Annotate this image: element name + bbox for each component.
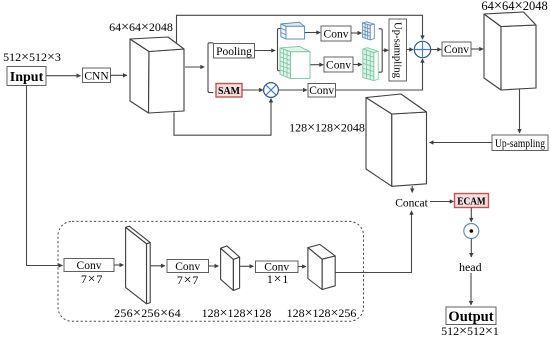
wire cuboid1-mult bottom bbox=[174, 99, 271, 136]
bracket2 bbox=[278, 29, 282, 71]
wire Input-dashedbox bbox=[27, 86, 63, 266]
box Conv sam row bbox=[308, 84, 336, 98]
dot operator bbox=[464, 224, 479, 239]
svg-text:SAM: SAM bbox=[218, 86, 240, 97]
box Conv mid bbox=[324, 57, 353, 72]
wire upsampling-adder bbox=[407, 49, 414, 51]
wire ECAM-dot bbox=[470, 208, 472, 222]
box Conv1 bbox=[64, 259, 114, 272]
svg-text:Input: Input bbox=[10, 70, 44, 85]
svg-text:Conv: Conv bbox=[326, 60, 351, 72]
adder bbox=[414, 41, 430, 57]
wire cuboid1-bracket1 bbox=[185, 66, 204, 68]
svg-text:Conv: Conv bbox=[324, 29, 349, 41]
wire Input-CNN bbox=[46, 75, 81, 77]
blue feature box bbox=[281, 22, 305, 39]
wire cuboid2-upsampling2 bbox=[519, 89, 521, 133]
box ECAM bbox=[455, 194, 489, 208]
box Conv2 bbox=[167, 260, 209, 273]
box Conv right bbox=[442, 42, 471, 56]
svg-text:7×7: 7×7 bbox=[81, 272, 103, 287]
wire SAM-mult bbox=[242, 89, 263, 91]
box SAM bbox=[216, 84, 242, 98]
wire head-Output bbox=[470, 273, 472, 305]
svg-text:Up-sampling: Up-sampling bbox=[495, 136, 545, 150]
wire conv2-slab2 bbox=[209, 265, 219, 267]
wire upsampling2-cuboid3 bbox=[430, 142, 493, 144]
wire blue-Conv bbox=[305, 32, 321, 34]
bracket1 bbox=[208, 43, 213, 93]
svg-text:Output: Output bbox=[448, 309, 493, 325]
svg-text:128×128×2048: 128×128×2048 bbox=[289, 121, 365, 136]
wire Conv-greengrid bbox=[353, 64, 362, 66]
wire adder-Conv bbox=[431, 49, 442, 51]
box Input bbox=[7, 67, 46, 86]
box Output bbox=[446, 307, 496, 325]
wire CNN-cuboid1 bbox=[111, 74, 128, 76]
wire Conv-adder bottom bbox=[336, 59, 423, 90]
wire green-Conv bbox=[310, 64, 323, 66]
wire conv1-slab1 bbox=[114, 264, 124, 266]
wire bracket3-upsampling bbox=[382, 49, 388, 51]
box Conv3 bbox=[256, 261, 299, 273]
svg-text:Concat: Concat bbox=[395, 197, 428, 209]
svg-text:head: head bbox=[459, 260, 482, 274]
box Conv top bbox=[321, 26, 351, 41]
cuboid2 64x64x2048 bbox=[484, 12, 536, 90]
bracket3 bbox=[379, 29, 383, 72]
blue grid bbox=[363, 22, 375, 40]
svg-text:ECAM: ECAM bbox=[457, 196, 486, 207]
wire Pooling-bracket2 bbox=[255, 50, 276, 52]
dashed container bbox=[58, 221, 364, 321]
green feature box bbox=[280, 46, 310, 78]
svg-text:128×128×256: 128×128×256 bbox=[287, 306, 357, 321]
slab1 bbox=[126, 226, 151, 304]
wire Conv-cuboid2 bbox=[471, 48, 483, 50]
skip wire top bbox=[177, 15, 423, 42]
box CNN bbox=[83, 68, 111, 83]
svg-text:Pooling: Pooling bbox=[216, 46, 252, 58]
wire slab1-conv2 bbox=[150, 265, 165, 267]
svg-text:128×128×128: 128×128×128 bbox=[202, 306, 272, 321]
svg-text:256×256×64: 256×256×64 bbox=[114, 306, 181, 321]
wire concat-ECAM bbox=[430, 201, 454, 203]
box Pooling bbox=[214, 44, 255, 59]
svg-text:512×512×1: 512×512×1 bbox=[441, 324, 499, 339]
svg-text:Conv: Conv bbox=[309, 85, 334, 97]
wire dot-head bbox=[470, 239, 472, 258]
wire cuboid3-concat bbox=[411, 186, 413, 193]
box Up-sampling right bbox=[492, 135, 548, 151]
wire conv3-box3 bbox=[298, 266, 306, 268]
svg-text:CNN: CNN bbox=[84, 70, 109, 82]
wire mult-Conv bbox=[278, 89, 307, 91]
svg-text:Conv: Conv bbox=[77, 260, 102, 272]
svg-text:Up-sampling: Up-sampling bbox=[392, 22, 404, 78]
wire Conv-bluegrid bbox=[351, 32, 362, 34]
box Up-sampling vertical bbox=[389, 19, 407, 81]
multiplier bbox=[264, 83, 279, 98]
cuboid1 64x64x2048 bbox=[130, 37, 184, 113]
cuboid3 128x128x2048 bbox=[366, 94, 427, 186]
wire box3-concat bbox=[335, 211, 411, 273]
svg-text:1×1: 1×1 bbox=[267, 272, 289, 287]
slab2 bbox=[221, 246, 240, 291]
svg-text:Conv: Conv bbox=[444, 44, 469, 56]
svg-text:64×64×2048: 64×64×2048 bbox=[481, 0, 547, 14]
svg-text:Conv: Conv bbox=[175, 261, 200, 273]
svg-text:64×64×2048: 64×64×2048 bbox=[109, 20, 173, 35]
wire slab2-conv3 bbox=[240, 265, 254, 267]
box3 feature bbox=[308, 244, 335, 289]
svg-text:7×7: 7×7 bbox=[177, 273, 199, 288]
svg-text:512×512×3: 512×512×3 bbox=[3, 50, 61, 65]
green grid bbox=[363, 48, 378, 81]
